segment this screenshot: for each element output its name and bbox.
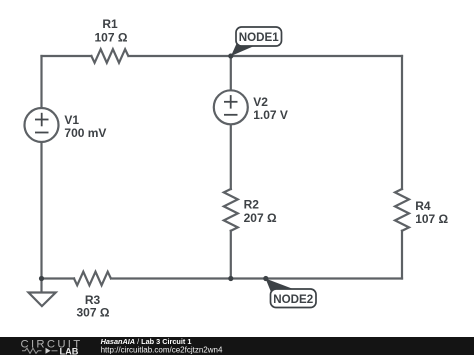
svg-text:V2: V2	[253, 95, 268, 109]
svg-text:107 Ω: 107 Ω	[95, 31, 128, 45]
svg-text:R2: R2	[244, 198, 260, 212]
svg-text:307 Ω: 307 Ω	[77, 306, 110, 320]
svg-text:NODE2: NODE2	[273, 293, 313, 306]
svg-text:R1: R1	[102, 17, 118, 31]
svg-text:207 Ω: 207 Ω	[244, 211, 277, 225]
svg-text:LAB: LAB	[60, 346, 79, 355]
svg-text:1.07 V: 1.07 V	[253, 108, 288, 122]
svg-text:http://circuitlab.com/ce2fcjtz: http://circuitlab.com/ce2fcjtzn2wn4	[101, 345, 223, 354]
svg-text:V1: V1	[64, 113, 79, 127]
svg-text:107 Ω: 107 Ω	[415, 212, 448, 226]
svg-text:NODE1: NODE1	[239, 31, 279, 44]
svg-text:700 mV: 700 mV	[64, 126, 106, 140]
svg-text:R4: R4	[415, 199, 431, 213]
